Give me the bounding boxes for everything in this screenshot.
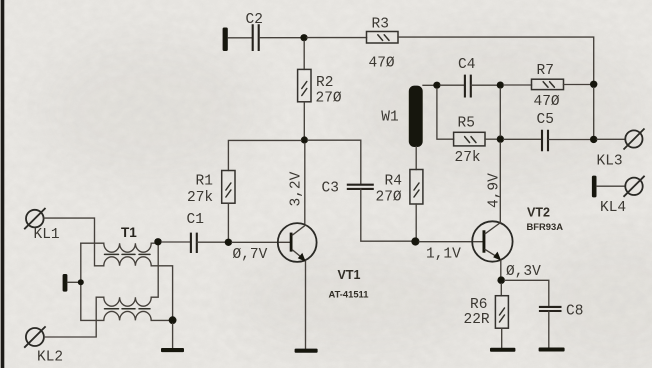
junction dot N8: [497, 276, 505, 284]
resistor R7: [532, 79, 564, 89]
junction dot shield tap: [78, 279, 84, 285]
svg-text:27k: 27k: [455, 150, 481, 166]
wire N3 to C4: [440, 84, 464, 86]
wire W1 bottom to R4: [415, 147, 417, 170]
svg-text:VT1: VT1: [338, 268, 361, 282]
capacitor C1: [191, 233, 197, 253]
wire bar to C2: [228, 37, 252, 39]
svg-text:27k: 27k: [187, 190, 213, 206]
transistor VT1: [278, 223, 317, 262]
junction dot N3: [433, 82, 440, 89]
svg-text:47Ø: 47Ø: [534, 94, 560, 110]
svg-text:C1: C1: [187, 212, 204, 228]
svg-text:C2: C2: [246, 12, 263, 28]
junction dot N5: [590, 81, 597, 88]
wire bar to KL4: [597, 185, 626, 187]
terminal KL2: [26, 328, 44, 346]
wire C1 to base node: [197, 241, 225, 243]
junction dot base node VT1: [225, 239, 232, 246]
resistor R3: [367, 32, 399, 44]
page edge border (left): [1, 0, 5, 368]
shield tap electrode: [63, 274, 68, 292]
resistor R5: [454, 132, 485, 146]
capacitor C3: [347, 185, 374, 189]
wire R6 to ground: [501, 328, 503, 348]
T1 core dashes lower: [105, 308, 151, 310]
wire N4 down to N7: [499, 88, 501, 135]
wire N8 to R6: [500, 284, 502, 296]
wire R4 bottom to VT2 base node: [415, 204, 417, 238]
junction dot N7: [497, 135, 504, 142]
svg-text:W1: W1: [381, 110, 398, 126]
svg-text:R2: R2: [316, 75, 333, 91]
svg-text:4,9V: 4,9V: [487, 173, 503, 208]
capacitor C2: [253, 24, 259, 51]
svg-text:R3: R3: [372, 17, 389, 33]
svg-text:1,1V: 1,1V: [426, 247, 461, 263]
T1 core dashes upper: [105, 253, 151, 255]
wire C5 to node N6: [548, 139, 590, 141]
terminal KL4: [625, 178, 642, 195]
wire R1 bottom to base node: [227, 203, 229, 239]
svg-text:R4: R4: [385, 173, 402, 189]
capacitor C5: [542, 130, 548, 151]
svg-text:Ø,7V: Ø,7V: [233, 247, 268, 263]
wire C8 to ground: [548, 311, 550, 347]
wire R2 bottom to node N2: [303, 102, 305, 137]
svg-text:KL2: KL2: [37, 350, 63, 366]
wire N3 down to R5: [437, 89, 454, 140]
junction dot N4: [497, 82, 504, 89]
wire dot A to C1: [161, 241, 190, 243]
wire VT1 emitter to ground: [305, 262, 307, 349]
svg-text:R5: R5: [458, 115, 475, 131]
junction dot N1: [300, 34, 307, 41]
svg-text:Ø,3V: Ø,3V: [506, 264, 541, 280]
svg-text:C5: C5: [537, 112, 554, 128]
terminal bar electrode at KL4: [592, 176, 597, 198]
svg-text:KL3: KL3: [597, 154, 623, 170]
terminal KL3: [625, 130, 642, 147]
wire R5 to node N7: [485, 138, 497, 140]
junction dot N2: [301, 136, 308, 143]
wire KL2 to T1 winding c (lower pair top coil): [44, 245, 158, 337]
resistor R6: [495, 296, 508, 329]
svg-text:22R: 22R: [464, 312, 490, 328]
svg-text:3,2V: 3,2V: [289, 171, 305, 206]
svg-text:R1: R1: [196, 174, 213, 190]
wire N7 to C5: [504, 138, 542, 140]
inductor W1 (filled choke): [409, 86, 423, 147]
terminal KL1: [26, 210, 44, 228]
wire VT2 emitter to node N8: [500, 260, 502, 277]
svg-text:BFR93A: BFR93A: [527, 221, 564, 232]
svg-text:C3: C3: [322, 180, 339, 196]
resistor R1: [222, 171, 235, 204]
wire N5 down to N6: [593, 88, 595, 136]
wire R7 to node N5: [564, 84, 591, 86]
svg-text:R6: R6: [470, 297, 487, 313]
ground under R6: [490, 348, 515, 352]
svg-text:KL4: KL4: [600, 200, 626, 216]
transistor VT2: [472, 221, 512, 261]
svg-text:KL1: KL1: [34, 227, 60, 243]
T1 winding a (upper pair top coil): [81, 243, 155, 252]
wire N4 to R7: [504, 84, 532, 86]
ground under VT1: [295, 349, 318, 353]
wire base node to VT1 base: [232, 241, 290, 243]
wire base node to VT2 base: [419, 241, 482, 243]
svg-text:AT-41511: AT-41511: [329, 289, 369, 300]
wire shield tap to rail: [67, 281, 80, 283]
ground under T1: [161, 348, 184, 352]
svg-text:C4: C4: [458, 57, 475, 73]
junction dot B (T1 ground node): [169, 316, 177, 324]
wire W1 top to node N3: [423, 84, 434, 86]
wire N2 to C3: [308, 140, 361, 184]
wire VT2 collector: [499, 143, 501, 224]
capacitor C8: [539, 307, 562, 311]
wire C3 bottom to VT2 base node: [361, 189, 412, 241]
wire N6 to KL3: [597, 138, 625, 140]
wire N1 to R3: [307, 37, 367, 39]
junction dot N6: [590, 136, 597, 143]
T1 left rail to winding d (lower pair bottom coil): [81, 243, 169, 320]
wire R3 to right bus corner: [398, 37, 594, 81]
ground under C8: [539, 348, 565, 352]
svg-text:C8: C8: [566, 304, 583, 320]
terminal bar electrode at C2 input: [223, 28, 228, 52]
wire N2 to R1: [228, 140, 301, 170]
wire C4 to node N4: [471, 84, 497, 86]
junction dot A (T1 output): [154, 238, 161, 245]
wire C2 to node N1: [260, 37, 302, 39]
wire VT1 collector: [304, 143, 306, 223]
svg-text:27Ø: 27Ø: [376, 190, 402, 206]
svg-text:T1: T1: [121, 225, 137, 240]
wire R2 top: [303, 41, 305, 69]
svg-text:27Ø: 27Ø: [316, 91, 342, 107]
svg-text:R7: R7: [537, 63, 554, 79]
svg-text:47Ø: 47Ø: [369, 56, 395, 72]
capacitor C4: [465, 75, 471, 98]
svg-text:VT2: VT2: [527, 206, 550, 220]
resistor R2: [298, 69, 311, 101]
wire KL1 to T1 winding b (upper pair lower coil): [44, 218, 173, 317]
resistor R4: [410, 170, 423, 205]
wire N8 to C8: [505, 280, 549, 306]
junction dot VT2 base node: [411, 237, 419, 245]
wire dot B to ground: [172, 324, 174, 348]
